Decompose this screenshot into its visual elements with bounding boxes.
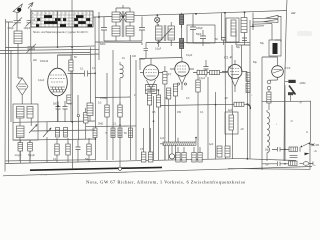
potentiometer P1 — [285, 80, 296, 95]
junction dot — [284, 163, 286, 165]
tube V1 — [48, 55, 68, 122]
variable capacitor VC1 plates — [250, 13, 281, 159]
wire h130 — [31, 130, 95, 131]
wire v113 — [112, 50, 114, 160]
capacitor C7 — [130, 17, 145, 42]
wire h57 — [140, 58, 182, 71]
wire h126 — [86, 125, 136, 128]
trimmer capacitor C3 — [27, 44, 37, 62]
capacitor C10 — [53, 101, 61, 122]
tube V2 — [140, 58, 164, 96]
svg-text:50μ: 50μ — [260, 42, 265, 45]
ground/earth arrow E1 — [28, 3, 33, 21]
wire band drops — [160, 138, 196, 161]
terminal J2 — [267, 86, 271, 90]
resistor R9 — [147, 93, 151, 160]
wire main vertical through table — [71, 0, 74, 169]
wire h138-140 — [13, 139, 95, 140]
capacitor C9 — [193, 30, 210, 46]
resistor R5 — [66, 138, 70, 162]
oscillator coil assembly L2/L3 — [13, 104, 38, 140]
oscillator coil L5 — [241, 12, 247, 45]
capacitor C12 — [68, 103, 88, 140]
switch S4 — [300, 143, 314, 152]
capacitor C16 — [204, 60, 209, 77]
wire h50 pair — [0, 49, 99, 53]
terminal J1 — [267, 80, 271, 84]
svg-text:Strom- und Spannungswerte (≈): Strom- und Spannungswerte (≈) gelten für… — [33, 31, 89, 34]
wire — [6, 46, 58, 49]
shield box — [187, 25, 215, 43]
capacitor C14 — [28, 140, 33, 163]
svg-text:≈V: ≈V — [299, 102, 302, 105]
resistor R11 — [163, 66, 171, 160]
svg-text:Nr. 604: Nr. 604 — [40, 174, 48, 177]
svg-text:100: 100 — [132, 55, 137, 58]
wire V5 drop — [262, 57, 278, 170]
resistor R14 horizontal — [197, 70, 207, 74]
svg-text:0,3MΩ: 0,3MΩ — [100, 97, 107, 100]
svg-text:0,1μF: 0,1μF — [38, 79, 45, 82]
switch S1 — [43, 122, 51, 162]
capacitor C31 — [132, 43, 148, 59]
wire top junctions — [98, 11, 245, 17]
svg-text:4μF: 4μF — [228, 109, 233, 112]
wire lower link — [228, 149, 310, 169]
svg-text:5000: 5000 — [53, 103, 59, 106]
wire — [6, 22, 14, 163]
resistor R7 — [105, 105, 109, 117]
wire — [58, 46, 96, 55]
oscillator coil T2 — [156, 22, 175, 47]
capacitor C15 — [76, 140, 81, 163]
resistor R10 — [156, 90, 160, 160]
svg-text:150: 150 — [177, 111, 182, 114]
speaker plug P2 — [300, 162, 314, 166]
resistor R1 — [69, 55, 73, 122]
antenna A1 — [13, 4, 23, 21]
wire h90 — [145, 90, 159, 160]
capacitor C5 — [68, 71, 96, 77]
resistor R15 horizontal — [193, 70, 228, 74]
rectifier hook mark — [248, 105, 250, 109]
resistor R25 — [246, 84, 250, 93]
junction pilot circle — [118, 167, 121, 170]
tube V3 — [170, 57, 194, 90]
svg-text:50μ: 50μ — [85, 158, 90, 161]
wire h97 — [95, 96, 130, 99]
svg-text:100pF: 100pF — [196, 27, 203, 30]
capacitor C33 — [64, 128, 68, 138]
field coil L6 — [267, 110, 278, 161]
wire v241 — [241, 45, 244, 72]
capacitor C13 — [18, 140, 23, 163]
svg-text:100pF: 100pF — [24, 27, 31, 30]
table header marks — [38, 13, 93, 15]
output transformer T4 primary — [289, 147, 298, 151]
speaker arrow — [305, 153, 310, 156]
wire h122 — [13, 121, 95, 122]
wire right bottom verticals — [285, 85, 310, 161]
wire mid verticals — [91, 12, 100, 160]
tube V4 — [222, 60, 247, 92]
capacitor C21 — [225, 146, 230, 157]
resistor R18 — [182, 147, 186, 162]
resistor R23 — [67, 95, 71, 104]
wire pot output — [310, 101, 312, 142]
svg-text:≈0,1μF: ≈0,1μF — [14, 154, 22, 157]
antenna coil L1 — [14, 31, 22, 60]
switch cross mark — [312, 144, 320, 147]
capacitor C27 — [93, 128, 97, 138]
capacitor C23 — [242, 38, 247, 41]
wire h46 left — [95, 42, 250, 45]
resistor R16 horizontal — [232, 102, 249, 106]
IF transformer T1 — [112, 5, 134, 41]
wire ground bus right — [240, 159, 296, 161]
capacitor C6 — [101, 17, 116, 41]
resistor R12 — [173, 84, 177, 160]
resistor R6 — [87, 138, 91, 162]
resistor R22 — [198, 147, 202, 162]
svg-text:1μF: 1μF — [160, 137, 165, 140]
capacitor C29 — [118, 128, 122, 138]
svg-text:≈V: ≈V — [290, 120, 293, 123]
svg-text:≈2MΩ: ≈2MΩ — [299, 82, 306, 85]
scattered value labels — [33, 56, 308, 134]
svg-text:≈Ω: ≈Ω — [314, 150, 317, 153]
output transformer T4 secondary — [289, 155, 298, 165]
svg-text:50μ: 50μ — [253, 61, 258, 64]
variable capacitor C4 (padder) — [17, 78, 29, 104]
wire table drop left — [57, 11, 59, 48]
wire top right verticals — [236, 30, 250, 45]
resistor R21 — [288, 92, 293, 101]
resistor R24 — [246, 73, 250, 82]
smudge — [297, 31, 312, 36]
junction dot — [284, 149, 286, 151]
svg-text:CY2: CY2 — [285, 66, 291, 70]
wire top bus — [58, 11, 287, 19]
svg-text:50μ: 50μ — [157, 41, 162, 44]
capacitor C11 — [63, 101, 68, 122]
capacitor C30 — [129, 128, 133, 138]
pilot lamp LP1 — [155, 15, 160, 28]
resistor R2 — [180, 13, 184, 28]
electrolytic C17 — [225, 109, 238, 134]
wire v107 — [106, 73, 108, 160]
svg-text:5000: 5000 — [100, 43, 106, 46]
resistor R17 — [176, 147, 180, 162]
svg-text:50μ: 50μ — [265, 149, 270, 152]
wire v225 — [224, 13, 227, 159]
capacitor C25 — [272, 147, 290, 152]
resistor R13 — [196, 70, 200, 160]
trimmer capacitor C2 — [26, 18, 36, 47]
junction ring — [77, 114, 79, 116]
capacitor C18 — [141, 128, 146, 162]
wire v78 — [77, 95, 80, 140]
svg-text:m: m — [306, 131, 308, 134]
svg-text:0,1μF: 0,1μF — [155, 48, 162, 51]
wire osc to V4 — [246, 72, 249, 159]
resistor R4 — [55, 138, 59, 162]
wire right border — [284, 0, 287, 161]
svg-text:50μμF: 50μμF — [28, 154, 35, 157]
svg-text:50μ: 50μ — [236, 46, 241, 49]
wire ground bus upper — [5, 160, 95, 161]
capacitor C19 — [148, 128, 153, 162]
capacitor C8 — [190, 14, 203, 43]
capacitor C20 — [217, 146, 222, 157]
wire ground bus — [5, 159, 240, 164]
wire — [18, 60, 31, 104]
svg-text:0,1μF: 0,1μF — [199, 77, 206, 80]
capacitor C32 — [56, 128, 60, 138]
svg-text:2MΩ: 2MΩ — [98, 123, 103, 126]
trimmer capacitor C1 — [13, 18, 23, 32]
wire h55 — [58, 54, 100, 55]
svg-text:CCH1: CCH1 — [40, 59, 48, 63]
junction dot — [195, 137, 197, 139]
wire v120 — [119, 97, 121, 168]
electrolytic C24 — [260, 40, 281, 56]
svg-text:0,1μF: 0,1μF — [186, 54, 193, 57]
capacitor C22 — [215, 38, 226, 46]
svg-text:aW: aW — [291, 11, 296, 15]
capacitor C28 — [111, 128, 115, 138]
wire left border — [4, 19, 7, 172]
wire — [20, 118, 31, 161]
wire v205-222 bundle — [208, 13, 222, 159]
svg-text:4μF: 4μF — [209, 143, 214, 146]
IF can T3 — [226, 18, 239, 42]
resistor R8 — [118, 102, 122, 125]
tube V5 — [272, 62, 284, 80]
coil L4 — [87, 103, 93, 121]
junction dot — [57, 105, 59, 107]
wire heavy chassis bus — [30, 167, 162, 170]
svg-text:≈50pF: ≈50pF — [7, 27, 14, 30]
capacitor C26 — [262, 162, 289, 167]
wire v232 — [231, 45, 234, 159]
wire bottom border — [3, 167, 312, 176]
wire v130-136 — [131, 55, 137, 160]
svg-text:50pF: 50pF — [196, 33, 202, 36]
wire h105 — [160, 104, 232, 105]
resistor R20 — [262, 90, 311, 110]
meter M1 — [169, 146, 174, 159]
heater hatched band — [163, 142, 196, 145]
measurement value table — [31, 11, 93, 27]
choke L7 — [120, 62, 123, 97]
resistor R3 — [180, 25, 184, 58]
resistor R19 — [192, 147, 196, 162]
